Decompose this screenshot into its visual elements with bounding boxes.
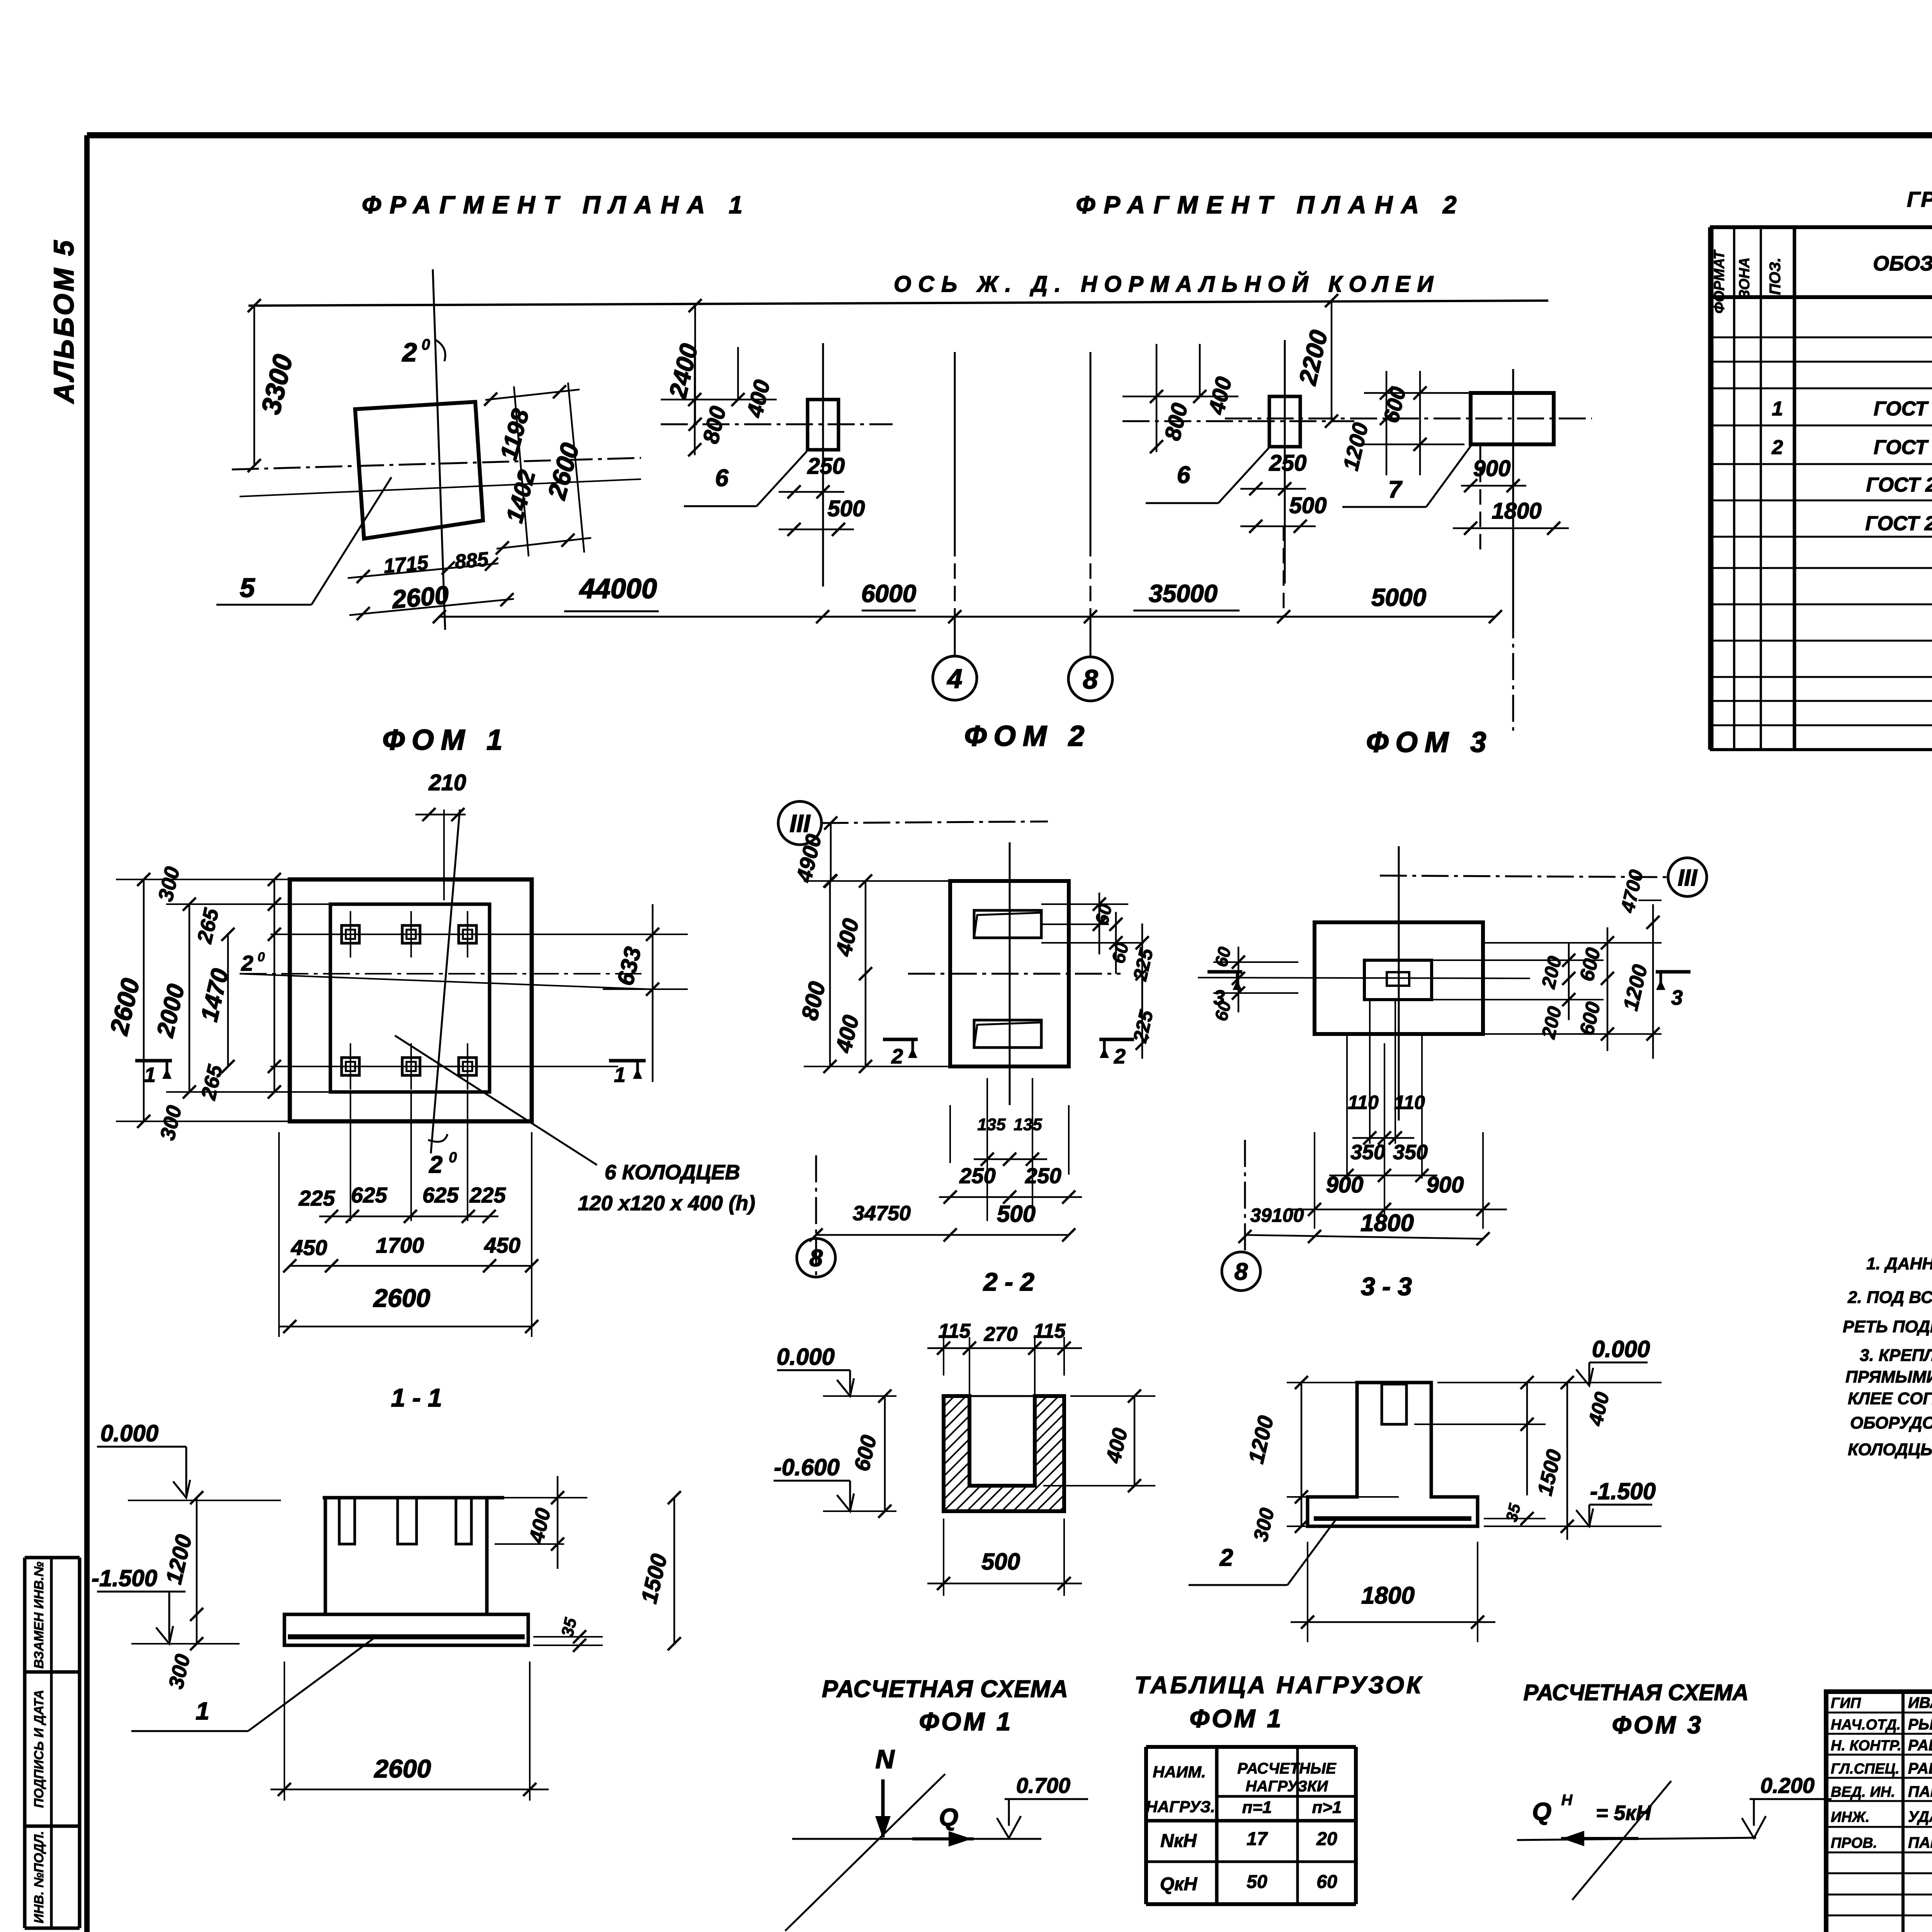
svg-text:500: 500 bbox=[828, 496, 865, 521]
svg-text:ФОРМАТ: ФОРМАТ bbox=[1711, 250, 1728, 314]
fragment plan 2: leader 7 bbox=[1342, 445, 1471, 507]
section 3-3 dims left bbox=[1243, 1376, 1399, 1544]
Fom 3 left dims bbox=[1211, 945, 1298, 1023]
Fom 2 section marks 2-2 bbox=[883, 1039, 1134, 1068]
svg-text:6: 6 bbox=[715, 465, 729, 492]
svg-text:115: 115 bbox=[939, 1320, 971, 1342]
svg-text:= 5кН: = 5кН bbox=[1596, 1801, 1651, 1825]
section 3-3 dims right bbox=[1414, 1376, 1614, 1540]
section 1-1 bottom dim 2600 bbox=[270, 1662, 549, 1801]
svg-text:0.200: 0.200 bbox=[1760, 1773, 1815, 1798]
fragment plan 2: dims 35000/5000 bbox=[1133, 526, 1513, 617]
svg-text:N: N bbox=[875, 1745, 895, 1774]
svg-text:ГЛ.СПЕЦ.: ГЛ.СПЕЦ. bbox=[1831, 1761, 1900, 1777]
svg-text:2: 2 bbox=[241, 951, 253, 975]
svg-text:5000: 5000 bbox=[1371, 583, 1426, 611]
title block bbox=[1826, 1692, 1932, 1932]
svg-text:1: 1 bbox=[614, 1063, 626, 1087]
svg-text:135: 135 bbox=[1014, 1115, 1042, 1134]
section 2-2 top dims 115/270/115 bbox=[927, 1320, 1082, 1396]
svg-text:2: 2 bbox=[1114, 1045, 1126, 1068]
fragment plan 2: dim 2200 bbox=[1293, 294, 1338, 428]
Fom 1 bottom dims bbox=[279, 1094, 538, 1337]
svg-text:0: 0 bbox=[449, 1150, 457, 1166]
svg-text:210: 210 bbox=[429, 770, 466, 795]
svg-text:ВЕД. ИН.: ВЕД. ИН. bbox=[1831, 1784, 1895, 1800]
svg-text:ПРЯМЫМИ БОЛТАМИ, СОЕДИНЕНН: ПРЯМЫМИ БОЛТАМИ, СОЕДИНЕННЫМИ С БЕТОНОМ … bbox=[1845, 1367, 1932, 1386]
svg-text:4: 4 bbox=[947, 663, 963, 694]
svg-text:0.000: 0.000 bbox=[1592, 1336, 1650, 1362]
left margin stamp boxes bbox=[25, 1558, 80, 1928]
svg-text:0: 0 bbox=[258, 950, 265, 964]
svg-text:450: 450 bbox=[291, 1235, 327, 1260]
svg-text:РАШЕВСКИЙ: РАШЕВСКИЙ bbox=[1908, 1759, 1932, 1777]
svg-text:ФОМ 3: ФОМ 3 bbox=[1612, 1711, 1703, 1739]
svg-text:2: 2 bbox=[401, 338, 417, 367]
svg-text:225: 225 bbox=[469, 1183, 506, 1207]
svg-text:625: 625 bbox=[351, 1183, 387, 1207]
svg-text:1800: 1800 bbox=[1361, 1582, 1415, 1609]
svg-text:60: 60 bbox=[1316, 1872, 1337, 1892]
fragment plan 1: leader 5 bbox=[216, 477, 391, 605]
svg-text:УДАЛОВА: УДАЛОВА bbox=[1908, 1808, 1932, 1825]
svg-text:110: 110 bbox=[1348, 1092, 1379, 1113]
svg-text:2600: 2600 bbox=[373, 1284, 430, 1312]
svg-text:500: 500 bbox=[981, 1549, 1020, 1575]
svg-text:ПОДПИСЬ И ДАТА: ПОДПИСЬ И ДАТА bbox=[32, 1690, 46, 1808]
svg-text:РАШЕВСКИЙ: РАШЕВСКИЙ bbox=[1908, 1736, 1932, 1754]
svg-text:1: 1 bbox=[144, 1063, 156, 1087]
Fom 1 leader: 6 kolodtsev bbox=[395, 1036, 755, 1215]
svg-text:2: 2 bbox=[1772, 436, 1783, 459]
svg-text:120 x120 x 400 (h): 120 x120 x 400 (h) bbox=[578, 1192, 755, 1215]
svg-text:ИВАНОВА: ИВАНОВА bbox=[1908, 1694, 1932, 1711]
Fom 3 plan bbox=[1198, 846, 1707, 1121]
svg-text:350: 350 bbox=[1350, 1141, 1385, 1164]
svg-text:-0.600: -0.600 bbox=[774, 1454, 840, 1480]
svg-text:900: 900 bbox=[1473, 456, 1511, 481]
svg-text:НАГРУЗКИ: НАГРУЗКИ bbox=[1245, 1778, 1328, 1795]
svg-text:135: 135 bbox=[977, 1115, 1006, 1134]
svg-text:8: 8 bbox=[1083, 664, 1098, 694]
svg-text:ФОМ 2: ФОМ 2 bbox=[964, 720, 1092, 752]
Fom 1 plan bbox=[240, 770, 688, 1178]
svg-text:ПОЗ.: ПОЗ. bbox=[1767, 258, 1784, 295]
Fom 2 left dims bbox=[791, 816, 966, 1073]
svg-text:КЛЕЕ СОГЛАСНО СН 471-75: КЛЕЕ СОГЛАСНО СН 471-75 ПУНКТ 2.4. ДОПУС… bbox=[1848, 1389, 1932, 1408]
svg-text:2600: 2600 bbox=[390, 580, 450, 614]
svg-text:ПАНКРАТОВА: ПАНКРАТОВА bbox=[1908, 1834, 1932, 1851]
svg-text:270: 270 bbox=[984, 1323, 1018, 1345]
svg-text:ГОСТ 24379. 1- 80: ГОСТ 24379. 1- 80 bbox=[1865, 512, 1932, 535]
svg-text:2: 2 bbox=[1219, 1544, 1233, 1571]
Fom 2 bottom dims bbox=[797, 1078, 1082, 1277]
load table title bbox=[1134, 1672, 1423, 1733]
svg-text:225: 225 bbox=[298, 1186, 335, 1210]
calc scheme Fom1 bbox=[785, 1745, 1088, 1931]
svg-text:1800: 1800 bbox=[1361, 1210, 1414, 1236]
svg-text:3. КРЕПЛЕНИЕ ОБОРУДОВАНИЯ: 3. КРЕПЛЕНИЕ ОБОРУДОВАНИЯ К ФУНДАМЕНТАМ … bbox=[1860, 1346, 1932, 1365]
svg-text:900: 900 bbox=[1427, 1172, 1464, 1197]
svg-text:ГОСТ 24379.1- 80: ГОСТ 24379.1- 80 bbox=[1866, 474, 1932, 496]
svg-text:3: 3 bbox=[1213, 986, 1225, 1009]
svg-text:ВЗАМЕН ИНВ.№: ВЗАМЕН ИНВ.№ bbox=[32, 1561, 46, 1668]
svg-text:ФОМ 1: ФОМ 1 bbox=[383, 724, 510, 756]
svg-text:8: 8 bbox=[1235, 1259, 1248, 1285]
svg-text:6: 6 bbox=[1177, 462, 1190, 488]
section 3-3 bbox=[1308, 1383, 1478, 1526]
svg-text:1715: 1715 bbox=[383, 551, 429, 578]
section 2-2 levels bbox=[774, 1344, 896, 1518]
svg-text:625: 625 bbox=[422, 1183, 459, 1207]
axis circle B (8) bbox=[1068, 352, 1112, 701]
load table Fom1 bbox=[1146, 1747, 1356, 1904]
svg-text:ПРОВ.: ПРОВ. bbox=[1831, 1835, 1877, 1851]
svg-text:0.000: 0.000 bbox=[777, 1344, 835, 1370]
fragment plan 2: column at axis bbox=[1122, 340, 1354, 583]
svg-text:III: III bbox=[1678, 865, 1697, 891]
svg-text:ОСЬ Ж. Д. НОРМАЛЬНОЙ: ОСЬ Ж. Д. НОРМАЛЬНОЙ КОЛЕИ bbox=[894, 271, 1440, 297]
section 1-1 dims right bbox=[495, 1476, 681, 1652]
svg-text:35000: 35000 bbox=[1149, 580, 1218, 607]
svg-text:РАСЧЕТНАЯ СХЕМА: РАСЧЕТНАЯ СХЕМА bbox=[822, 1676, 1068, 1702]
svg-text:885: 885 bbox=[454, 548, 490, 573]
svg-text:КОЛОДЦЫ, ПОКАЗАННЫЕ НА: КОЛОДЦЫ, ПОКАЗАННЫЕ НА ДАННОМ ЛИСТЕ. bbox=[1848, 1440, 1932, 1459]
svg-text:ГИП: ГИП bbox=[1831, 1695, 1861, 1711]
svg-text:ФОМ 1: ФОМ 1 bbox=[1190, 1704, 1284, 1733]
calc scheme Fom3 bbox=[1517, 1773, 1832, 1900]
svg-text:ФРАГМЕНТ ПЛАНА 2: ФРАГМЕНТ ПЛАНА 2 bbox=[1076, 191, 1465, 219]
svg-text:3 - 3: 3 - 3 bbox=[1361, 1272, 1412, 1301]
svg-text:1700: 1700 bbox=[376, 1233, 424, 1257]
svg-text:5: 5 bbox=[240, 573, 255, 603]
svg-text:ФОМ 1: ФОМ 1 bbox=[919, 1707, 1013, 1736]
svg-text:ПАНКРАТОВА: ПАНКРАТОВА bbox=[1908, 1783, 1932, 1800]
svg-text:NкН: NкН bbox=[1160, 1831, 1197, 1851]
svg-text:п>1: п>1 bbox=[1312, 1798, 1342, 1817]
svg-text:34750: 34750 bbox=[853, 1202, 911, 1225]
svg-text:ЗОНА: ЗОНА bbox=[1736, 257, 1753, 299]
svg-text:НАГРУЗ.: НАГРУЗ. bbox=[1146, 1798, 1215, 1816]
svg-text:44000: 44000 bbox=[579, 573, 657, 604]
fragment plan 1: dim 3300 bbox=[248, 299, 298, 472]
svg-text:2600: 2600 bbox=[374, 1754, 431, 1783]
svg-text:20: 20 bbox=[1316, 1829, 1337, 1849]
svg-text:ГОСТ 23279 - 85: ГОСТ 23279 - 85 bbox=[1874, 436, 1932, 459]
section 3-3 leader 2 bbox=[1189, 1520, 1335, 1585]
fragment plan 1: column at axis 4 bbox=[661, 299, 893, 587]
svg-text:ОБОЗНАЧЕНИЕ: ОБОЗНАЧЕНИЕ bbox=[1873, 252, 1932, 275]
Fom 3 bottom dims bbox=[1222, 1001, 1507, 1291]
svg-text:17: 17 bbox=[1247, 1829, 1268, 1849]
svg-text:2. ПОД ВСЕМИ МОНОЛИТНЫМИ Ж: 2. ПОД ВСЕМИ МОНОЛИТНЫМИ ЖЕЛЕЗОБЕТОННЫМИ… bbox=[1847, 1288, 1932, 1307]
svg-text:115: 115 bbox=[1034, 1320, 1066, 1342]
svg-text:250: 250 bbox=[1269, 451, 1307, 476]
svg-text:7: 7 bbox=[1388, 476, 1403, 503]
svg-text:Н: Н bbox=[1561, 1792, 1573, 1809]
svg-text:8: 8 bbox=[810, 1245, 823, 1272]
svg-text:ИНЖ.: ИНЖ. bbox=[1831, 1809, 1870, 1825]
svg-text:Q: Q bbox=[939, 1803, 958, 1831]
svg-text:ГРУППОВАЯ СПЕЦИФИКАЦИЯ ДЛЯ: ГРУППОВАЯ СПЕЦИФИКАЦИЯ ДЛЯ МОНОЛИТНЫХ ЭЛ… bbox=[1907, 187, 1932, 211]
fragment plan 1: long dim 44000/6000 bbox=[433, 573, 1502, 623]
calc scheme Fom3 title bbox=[1524, 1680, 1749, 1739]
Fom 2 right dims bbox=[1041, 893, 1157, 1059]
svg-text:РЫБКИНА: РЫБКИНА bbox=[1908, 1716, 1932, 1733]
Fom 3 section marks 3-3 bbox=[1207, 972, 1690, 1009]
svg-text:ФОМ 3: ФОМ 3 bbox=[1366, 726, 1493, 758]
svg-text:50: 50 bbox=[1247, 1872, 1267, 1892]
fragment plan 1: bottom dims 1715/885/2600 bbox=[348, 548, 514, 620]
section 2-2 bbox=[828, 1395, 1303, 1511]
svg-text:ГОСТ 23279 - 85: ГОСТ 23279 - 85 bbox=[1874, 398, 1932, 420]
svg-text:1 - 1: 1 - 1 bbox=[391, 1383, 442, 1412]
svg-text:-1.500: -1.500 bbox=[1590, 1478, 1656, 1504]
svg-text:2: 2 bbox=[429, 1151, 442, 1178]
axis circle 4 bbox=[933, 352, 977, 700]
svg-text:500: 500 bbox=[997, 1201, 1036, 1227]
svg-text:АЛЬБОМ 5: АЛЬБОМ 5 bbox=[49, 238, 80, 404]
section 3-3 levels bbox=[1484, 1336, 1662, 1526]
svg-text:ОБОРУДОВАНИЯ К ФУНДАМЕНТА: ОБОРУДОВАНИЯ К ФУНДАМЕНТАМ БОЛТАМИ ,ЗАДЕ… bbox=[1850, 1413, 1932, 1432]
fragment plan 1: tilted foundation 5 bbox=[232, 269, 641, 630]
svg-text:350: 350 bbox=[1393, 1141, 1428, 1164]
fragment plan 2: foundation 7 plan bbox=[1225, 369, 1592, 731]
svg-text:0.700: 0.700 bbox=[1016, 1773, 1070, 1798]
svg-text:450: 450 bbox=[484, 1233, 520, 1257]
svg-text:250: 250 bbox=[1025, 1163, 1061, 1188]
svg-text:6000: 6000 bbox=[861, 580, 916, 607]
svg-text:3: 3 bbox=[1671, 986, 1683, 1009]
svg-text:250: 250 bbox=[959, 1163, 995, 1188]
calc scheme Fom1 title bbox=[822, 1676, 1068, 1736]
railway axis line bbox=[248, 301, 1548, 306]
svg-text:39100: 39100 bbox=[1250, 1204, 1304, 1226]
section 2-2 right dim 400 bbox=[1043, 1389, 1155, 1492]
svg-text:2: 2 bbox=[891, 1045, 903, 1068]
group specification table bbox=[1710, 227, 1932, 750]
svg-text:900: 900 bbox=[1326, 1172, 1364, 1197]
Fom 3 right dims bbox=[1432, 868, 1662, 1059]
svg-text:6 КОЛОДЦЕВ: 6 КОЛОДЦЕВ bbox=[605, 1161, 740, 1184]
svg-text:НАЧ.ОТД.: НАЧ.ОТД. bbox=[1831, 1717, 1901, 1733]
svg-text:110: 110 bbox=[1394, 1092, 1425, 1113]
fragment plan 2: dims 900/1800 bbox=[1453, 456, 1569, 535]
svg-text:НАИМ.: НАИМ. bbox=[1153, 1763, 1206, 1781]
section 1-1 bbox=[92, 1420, 528, 1691]
svg-text:0.000: 0.000 bbox=[100, 1420, 158, 1446]
svg-text:250: 250 bbox=[807, 454, 845, 479]
svg-text:2 - 2: 2 - 2 bbox=[983, 1267, 1034, 1296]
svg-text:РАСЧЕТНЫЕ: РАСЧЕТНЫЕ bbox=[1237, 1760, 1337, 1777]
svg-text:1. ДАННЫЙ ЛИСТ СМ. СОВМЕСТН: 1. ДАННЫЙ ЛИСТ СМ. СОВМЕСТНО С ЛИСТОМ 2. bbox=[1866, 1253, 1932, 1273]
svg-text:п=1: п=1 bbox=[1242, 1798, 1272, 1817]
svg-text:0: 0 bbox=[422, 336, 430, 353]
svg-text:-1.500: -1.500 bbox=[92, 1565, 157, 1591]
svg-text:Н. КОНТР.: Н. КОНТР. bbox=[1831, 1738, 1901, 1754]
svg-text:1: 1 bbox=[1772, 398, 1783, 420]
section 3-3 bottom dim 1800 bbox=[1291, 1542, 1495, 1642]
svg-text:РЕТЬ ПОДГОТОВКУ ТОЛЩИНОЙ: РЕТЬ ПОДГОТОВКУ ТОЛЩИНОЙ 100 ММ ИЗ БЕТОН… bbox=[1843, 1316, 1932, 1336]
section 2-2 bottom dim 500 bbox=[927, 1519, 1082, 1596]
Fom 2 plan bbox=[778, 801, 1121, 1105]
Fom 1 left dims bbox=[104, 864, 340, 1142]
svg-text:ФРАГМЕНТ ПЛАНА 1: ФРАГМЕНТ ПЛАНА 1 bbox=[362, 191, 751, 219]
notes bbox=[1843, 1253, 1932, 1459]
svg-text:Q: Q bbox=[1532, 1798, 1551, 1825]
fragment plan 1: right-side dims 1198/1402/2600 bbox=[484, 383, 591, 556]
svg-text:РАСЧЕТНАЯ СХЕМА: РАСЧЕТНАЯ СХЕМА bbox=[1524, 1680, 1749, 1705]
Fom 1 section marks 1-1 bbox=[135, 1061, 646, 1087]
svg-text:ТАБЛИЦА НАГРУЗОК: ТАБЛИЦА НАГРУЗОК bbox=[1134, 1672, 1423, 1699]
svg-text:QкН: QкН bbox=[1160, 1874, 1198, 1895]
svg-text:500: 500 bbox=[1289, 493, 1327, 518]
svg-text:ИНВ. №ПОДЛ.: ИНВ. №ПОДЛ. bbox=[32, 1831, 46, 1923]
section 1-1 leader 1 bbox=[131, 1638, 374, 1731]
svg-text:1: 1 bbox=[196, 1697, 209, 1725]
svg-text:1800: 1800 bbox=[1492, 498, 1541, 524]
